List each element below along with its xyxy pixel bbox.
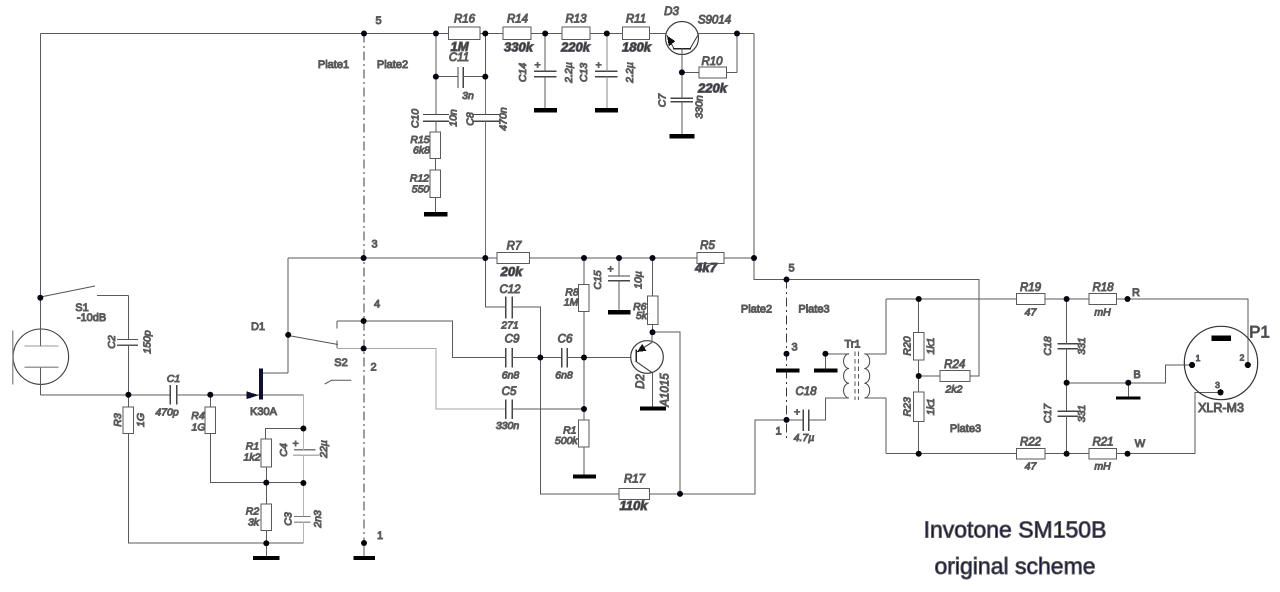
svg-text:2k2: 2k2 bbox=[945, 384, 963, 396]
svg-text:220k: 220k bbox=[697, 81, 728, 96]
wire Tr1 secondary to output rails bbox=[885, 299, 887, 454]
svg-text:47: 47 bbox=[1025, 461, 1038, 473]
resistor R3 bbox=[123, 407, 134, 434]
capsule plate bar right bbox=[814, 369, 838, 373]
svg-text:C13: C13 bbox=[578, 63, 590, 82]
svg-text:R: R bbox=[1132, 287, 1140, 299]
svg-text:1G: 1G bbox=[135, 413, 147, 427]
svg-text:C8: C8 bbox=[465, 112, 477, 126]
svg-text:P1: P1 bbox=[1249, 323, 1270, 342]
svg-text:R11: R11 bbox=[626, 14, 646, 26]
ground at R1 500k bbox=[573, 474, 596, 478]
svg-text:1: 1 bbox=[1196, 353, 1201, 363]
dash-dot separator Plate1/Plate2 bbox=[363, 34, 365, 544]
ground at node 1 bbox=[354, 556, 376, 560]
ground at C13 bbox=[595, 108, 618, 112]
resistor R13 bbox=[562, 27, 590, 39]
svg-text:D2: D2 bbox=[635, 374, 647, 389]
svg-text:R19: R19 bbox=[1020, 282, 1042, 294]
wire R6 leads bbox=[652, 258, 654, 332]
capacitor C7 bbox=[671, 98, 694, 102]
dash-dot separator Plate2/Plate3 bbox=[786, 280, 788, 442]
svg-text:R7: R7 bbox=[507, 241, 522, 253]
resistor R1 500k bbox=[579, 420, 590, 447]
svg-text:110k: 110k bbox=[620, 498, 649, 513]
transformer Tr1 bbox=[825, 339, 886, 401]
svg-text:1M: 1M bbox=[564, 297, 579, 309]
wire R22 to R21 bbox=[1045, 453, 1089, 455]
svg-text:R10: R10 bbox=[701, 56, 723, 68]
svg-text:5: 5 bbox=[375, 15, 381, 27]
svg-text:330n: 330n bbox=[694, 95, 706, 119]
capacitor C5 bbox=[506, 399, 513, 419]
svg-text:Plate2: Plate2 bbox=[741, 304, 772, 316]
svg-text:1k2: 1k2 bbox=[244, 452, 261, 464]
svg-text:+: + bbox=[292, 438, 298, 450]
svg-text:5k: 5k bbox=[636, 310, 648, 322]
ground at C15 bbox=[608, 310, 631, 314]
wire output top rail bbox=[886, 298, 1017, 300]
svg-text:original scheme: original scheme bbox=[934, 553, 1095, 579]
transistor D2 A1015 bbox=[631, 332, 672, 407]
svg-text:2: 2 bbox=[1240, 353, 1245, 363]
capacitor C4 bbox=[294, 449, 315, 451]
svg-text:C15: C15 bbox=[592, 270, 604, 289]
capacitor C15 bbox=[608, 276, 630, 281]
pin 1 junction bbox=[1189, 362, 1195, 368]
wire capsule plate to Tr1 bbox=[825, 354, 849, 369]
wire R4 leads bbox=[210, 395, 303, 483]
resistor R10 bbox=[699, 67, 726, 78]
svg-text:6n8: 6n8 bbox=[502, 370, 520, 382]
capacitor C1 bbox=[170, 385, 176, 405]
wire R1 500k to ground bbox=[583, 447, 585, 475]
svg-text:271: 271 bbox=[500, 320, 519, 332]
svg-text:R24: R24 bbox=[944, 359, 965, 371]
resistor R5 bbox=[697, 253, 724, 264]
svg-text:C5: C5 bbox=[502, 386, 517, 398]
wire top supply rail bbox=[40, 33, 754, 35]
capacitor C8 bbox=[473, 115, 499, 122]
svg-text:2.2µ: 2.2µ bbox=[624, 62, 636, 84]
resistor R14 bbox=[503, 27, 531, 39]
ground at D2 bbox=[640, 407, 666, 411]
svg-text:4: 4 bbox=[374, 299, 380, 311]
capacitor C18 331 bbox=[1057, 344, 1078, 349]
svg-text:330k: 330k bbox=[504, 40, 534, 55]
svg-text:6n8: 6n8 bbox=[555, 370, 573, 382]
wire R17 left lead from C9/C12 node bbox=[540, 358, 619, 494]
svg-text:C1: C1 bbox=[167, 373, 180, 385]
svg-text:R14: R14 bbox=[507, 14, 528, 26]
wire R24 left lead bbox=[919, 375, 940, 377]
svg-text:+: + bbox=[595, 60, 601, 72]
wire grid line to C1 bbox=[40, 394, 170, 396]
transistor D3 S9014 bbox=[664, 6, 731, 55]
svg-text:S9014: S9014 bbox=[698, 15, 731, 27]
capacitor C17 bbox=[1057, 411, 1078, 416]
resistor R20 bbox=[913, 333, 924, 361]
switch S2 bbox=[291, 321, 351, 384]
wire D1 drain up to node 3 rail bbox=[287, 258, 289, 373]
resistor R11 bbox=[622, 27, 649, 39]
resistor R23 bbox=[913, 392, 924, 422]
ground at C7 bbox=[670, 134, 695, 138]
capacitor C11 bbox=[458, 67, 463, 88]
svg-text:C9: C9 bbox=[505, 334, 520, 346]
svg-text:331: 331 bbox=[1076, 337, 1088, 355]
svg-text:1k1: 1k1 bbox=[925, 338, 937, 355]
svg-text:22µ: 22µ bbox=[318, 440, 330, 459]
svg-text:Plate3: Plate3 bbox=[798, 304, 829, 316]
resistor R16 bbox=[448, 27, 480, 39]
resistor R18 bbox=[1089, 294, 1117, 305]
svg-text:470n: 470n bbox=[498, 107, 510, 131]
svg-text:Plate1: Plate1 bbox=[318, 59, 349, 71]
JFET D1 K30A bbox=[210, 321, 303, 418]
svg-text:4.7µ: 4.7µ bbox=[794, 432, 815, 444]
ground at C14 bbox=[534, 108, 557, 112]
microphone capsule bbox=[13, 298, 69, 395]
resistor R12 bbox=[430, 170, 441, 197]
resistor R7 bbox=[497, 253, 530, 264]
svg-text:2: 2 bbox=[370, 362, 376, 374]
svg-text:150p: 150p bbox=[142, 330, 154, 354]
svg-text:A1015: A1015 bbox=[660, 373, 672, 408]
wire R5 right lead bbox=[724, 257, 754, 259]
svg-text:W: W bbox=[1135, 438, 1146, 450]
svg-text:R17: R17 bbox=[624, 474, 646, 486]
svg-text:Invotone SM150B: Invotone SM150B bbox=[924, 517, 1107, 543]
svg-text:47: 47 bbox=[1025, 307, 1038, 319]
resistor R19 bbox=[1017, 294, 1045, 305]
svg-text:D1: D1 bbox=[251, 321, 265, 333]
capacitor C13 bbox=[595, 71, 618, 76]
svg-text:C7: C7 bbox=[657, 93, 669, 108]
wire R18 to XLR pin 2 bbox=[1117, 299, 1249, 365]
svg-text:R3: R3 bbox=[112, 413, 124, 427]
capacitor C10 bbox=[423, 115, 449, 122]
resistor R17 bbox=[619, 489, 650, 500]
wire R19 to R18 bbox=[1045, 298, 1089, 300]
wire output bottom rail bbox=[886, 453, 1017, 455]
resistor R24 bbox=[940, 371, 970, 382]
svg-text:220k: 220k bbox=[560, 40, 591, 55]
ground at R12 bbox=[424, 212, 448, 216]
capacitor C3 bbox=[294, 516, 311, 518]
svg-text:R5: R5 bbox=[700, 240, 715, 252]
capacitor C14 bbox=[534, 71, 556, 76]
svg-text:R16: R16 bbox=[454, 14, 476, 26]
svg-text:C11: C11 bbox=[449, 52, 469, 64]
capacitor C2 bbox=[117, 339, 138, 345]
wire R20 leads bbox=[918, 299, 920, 376]
svg-text:XLR-M3: XLR-M3 bbox=[1198, 401, 1244, 415]
pin 3 junction bbox=[1217, 389, 1223, 395]
svg-text:B: B bbox=[1133, 369, 1140, 381]
svg-text:-10dB: -10dB bbox=[77, 312, 106, 324]
svg-text:10µ: 10µ bbox=[633, 271, 645, 289]
wire R1 leads bbox=[266, 429, 304, 483]
wire R15 to R12 to ground bbox=[434, 159, 436, 213]
svg-text:C18: C18 bbox=[795, 386, 817, 398]
svg-text:3k: 3k bbox=[248, 517, 260, 529]
wire D3 base to C7/R10 node bbox=[681, 49, 683, 73]
connector P1 XLR-M3 bbox=[1184, 323, 1270, 416]
resistor R4 bbox=[205, 407, 216, 434]
resistor R8 bbox=[579, 285, 590, 312]
svg-text:K30A: K30A bbox=[250, 406, 278, 418]
wire R23 leads bbox=[918, 376, 920, 454]
svg-text:C2: C2 bbox=[106, 335, 118, 349]
svg-text:2n3: 2n3 bbox=[312, 510, 324, 529]
resistor R6 bbox=[647, 296, 658, 324]
wire node 3 rail right of R7 bbox=[530, 257, 698, 259]
wire R8 leads down through C6 line to C5 line bbox=[583, 258, 585, 420]
svg-text:3n: 3n bbox=[462, 90, 474, 102]
svg-text:5: 5 bbox=[788, 263, 794, 275]
svg-text:C17: C17 bbox=[1042, 403, 1054, 423]
wire D3 collector down to R5 and node 5 bbox=[754, 34, 787, 280]
resistor R22 bbox=[1017, 448, 1045, 459]
svg-text:2.2µ: 2.2µ bbox=[563, 62, 575, 84]
svg-text:R23: R23 bbox=[902, 397, 914, 416]
svg-text:Plate3: Plate3 bbox=[950, 423, 981, 435]
svg-text:mH: mH bbox=[1094, 307, 1111, 319]
svg-text:4k7: 4k7 bbox=[694, 260, 717, 275]
wire R21 to XLR pin 3 bbox=[1117, 392, 1218, 453]
svg-text:S2: S2 bbox=[334, 357, 347, 369]
svg-text:1G: 1G bbox=[191, 422, 205, 434]
svg-text:3: 3 bbox=[371, 239, 377, 251]
svg-text:20k: 20k bbox=[500, 264, 523, 279]
capacitor C9 bbox=[506, 348, 513, 368]
svg-text:C6: C6 bbox=[558, 334, 573, 346]
svg-text:R21: R21 bbox=[1092, 437, 1113, 449]
wire node B line bbox=[1067, 365, 1190, 383]
svg-text:Tr1: Tr1 bbox=[844, 339, 860, 351]
svg-text:6k8: 6k8 bbox=[413, 145, 430, 157]
wire R2 leads bbox=[265, 483, 267, 557]
switch S1 bbox=[43, 286, 128, 324]
resistor R1 1k2 bbox=[261, 439, 272, 467]
svg-text:3: 3 bbox=[791, 342, 797, 354]
svg-text:R20: R20 bbox=[902, 336, 914, 355]
svg-text:500k: 500k bbox=[555, 435, 579, 447]
svg-text:1: 1 bbox=[377, 530, 383, 542]
ground at R2 bbox=[253, 556, 279, 560]
svg-text:180k: 180k bbox=[622, 40, 652, 55]
wire R10 leads bbox=[682, 34, 737, 73]
wire D1 source down to C4 bbox=[302, 395, 304, 429]
wire node 2 from S2 to C5 bbox=[337, 349, 506, 410]
svg-text:R22: R22 bbox=[1020, 437, 1042, 449]
svg-text:mH: mH bbox=[1094, 461, 1111, 473]
svg-text:3: 3 bbox=[1215, 380, 1220, 390]
svg-text:C10: C10 bbox=[410, 109, 422, 128]
capacitor C12 bbox=[506, 297, 513, 319]
svg-text:C18: C18 bbox=[1042, 336, 1054, 355]
svg-text:C3: C3 bbox=[283, 512, 295, 526]
resistor R15 bbox=[430, 132, 441, 159]
svg-text:+: + bbox=[607, 264, 613, 276]
svg-text:R4: R4 bbox=[191, 410, 205, 422]
svg-text:C4: C4 bbox=[278, 443, 290, 457]
ground at node B bbox=[1116, 383, 1141, 398]
capsule plate bar left bbox=[776, 369, 800, 373]
wire R3 leads and bottom return bbox=[128, 395, 303, 543]
capacitor C6 bbox=[562, 348, 568, 367]
resistor R21 bbox=[1089, 448, 1117, 459]
wire left rail down to S1 bbox=[39, 34, 41, 298]
svg-text:C14: C14 bbox=[517, 63, 529, 82]
wire node 3 rail bbox=[288, 257, 497, 259]
svg-text:R18: R18 bbox=[1092, 282, 1114, 294]
resistor R2 bbox=[261, 504, 272, 531]
pin 2 junction bbox=[1245, 362, 1251, 368]
wire node 4 from S2 to C9 bbox=[337, 321, 506, 358]
wire R17 right lead to node 1 C18 bbox=[650, 420, 787, 494]
svg-text:550: 550 bbox=[412, 184, 430, 196]
svg-text:+: + bbox=[794, 407, 800, 419]
svg-text:330n: 330n bbox=[496, 420, 520, 432]
svg-text:10n: 10n bbox=[448, 109, 460, 127]
svg-text:R13: R13 bbox=[565, 14, 587, 26]
wire node 5 to R24 bbox=[787, 280, 980, 377]
svg-text:C12: C12 bbox=[499, 284, 521, 296]
svg-text:1: 1 bbox=[775, 426, 781, 438]
svg-text:331: 331 bbox=[1076, 405, 1088, 423]
svg-text:+: + bbox=[534, 60, 540, 72]
svg-text:D3: D3 bbox=[664, 6, 679, 18]
svg-text:470p: 470p bbox=[155, 407, 179, 419]
wire R6/D2 node to R17 node bbox=[653, 332, 681, 494]
capacitor C18 4.7u bbox=[803, 409, 809, 431]
svg-text:1k1: 1k1 bbox=[925, 398, 937, 415]
svg-text:Plate2: Plate2 bbox=[377, 59, 408, 71]
